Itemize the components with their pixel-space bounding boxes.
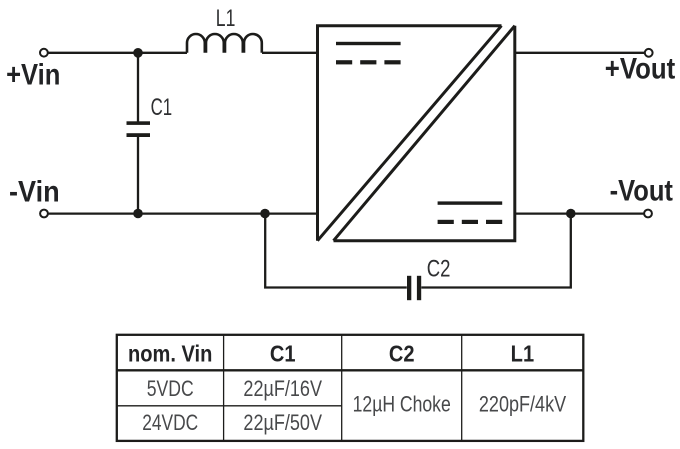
table grid [117, 335, 584, 441]
svg-text:C1: C1 [270, 340, 296, 367]
terminal -Vout [644, 210, 652, 218]
wire C2 loop right [421, 214, 571, 288]
svg-text:-Vin: -Vin [9, 175, 60, 209]
capacitor C1 lead bottom [137, 137, 139, 214]
svg-text:C1: C1 [151, 94, 173, 121]
wire bottom rail input [48, 212, 318, 214]
terminal +Vout [645, 49, 653, 57]
svg-text:12µH Choke: 12µH Choke [353, 393, 451, 417]
svg-text:nom. Vin: nom. Vin [128, 340, 212, 367]
terminal +Vin [40, 49, 48, 57]
DC symbol output (solid over dashed) [438, 201, 503, 224]
svg-text:-Vout: -Vout [610, 174, 673, 207]
svg-text:C2: C2 [389, 340, 415, 367]
svg-text:L1: L1 [216, 4, 236, 32]
svg-text:+Vin: +Vin [6, 58, 60, 91]
svg-text:C2: C2 [427, 254, 451, 282]
wire inductor to converter [262, 52, 318, 54]
wire -Vout [514, 212, 644, 214]
wire C2 loop left [265, 214, 407, 288]
node C2 left junction [260, 209, 270, 219]
svg-text:+Vout: +Vout [605, 52, 675, 85]
svg-text:22µF/50V: 22µF/50V [243, 411, 322, 435]
wire top rail input [48, 52, 187, 54]
converter U1 diagonal band [318, 26, 515, 241]
svg-text:L1: L1 [511, 340, 534, 367]
svg-text:24VDC: 24VDC [142, 411, 198, 435]
node input junction bottom [133, 209, 143, 219]
capacitor C1 lead top [137, 53, 139, 122]
node input junction top [133, 48, 143, 58]
svg-text:220pF/4kV: 220pF/4kV [479, 393, 567, 417]
capacitor C2 plates [407, 276, 421, 300]
svg-text:22µF/16V: 22µF/16V [243, 377, 322, 401]
terminal -Vin [40, 210, 48, 218]
wire +Vout [514, 52, 645, 54]
DC symbol input (solid over dashed) [336, 42, 401, 65]
inductor L1 [187, 34, 262, 53]
node C2 right junction [566, 209, 576, 219]
svg-text:5VDC: 5VDC [147, 377, 194, 401]
capacitor C1 plates [127, 121, 151, 137]
converter U1 outline [318, 26, 515, 241]
